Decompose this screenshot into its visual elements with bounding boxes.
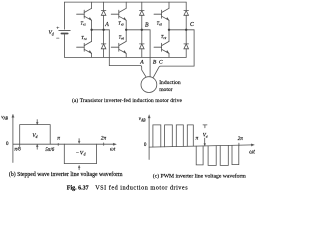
wire phase A to motor [109, 30, 146, 77]
svg-text:B: B [153, 60, 157, 66]
PWM negative pulse 2 [208, 146, 216, 166]
tick pi (b) [57, 143, 59, 145]
svg-text:Tr1: Tr1 [81, 21, 87, 27]
dim Vd top bar (c) [203, 124, 207, 126]
diode D4 bottom [101, 30, 106, 58]
svg-text:Induction: Induction [159, 80, 181, 86]
battery Vd plates [59, 29, 70, 31]
dim arrow above positive pulse [36, 120, 38, 124]
svg-text:Tr3: Tr3 [118, 20, 124, 26]
PWM positive pulse 4 [187, 125, 193, 146]
svg-text:Tr6: Tr6 [119, 34, 125, 40]
transistor Tr6 [111, 30, 126, 58]
svg-text:π: π [196, 136, 199, 142]
svg-text:(a) Transistor inverter-fed in: (a) Transistor inverter-fed induction mo… [72, 97, 182, 104]
wire phase B to motor [149, 30, 151, 77]
axis y (c) [148, 117, 150, 160]
svg-text:Vd: Vd [203, 134, 208, 139]
transistor Tr2 [154, 30, 169, 58]
svg-text:π: π [57, 136, 60, 142]
svg-text:(b) Stepped wave inverter line: (b) Stepped wave inverter line voltage w… [9, 171, 123, 178]
node B junction dot [125, 29, 127, 31]
svg-text:Vd: Vd [32, 133, 37, 139]
transistor Tr3 [111, 2, 126, 30]
svg-text:C: C [159, 60, 163, 66]
PWM positive pulse 3 [176, 125, 183, 147]
svg-text:(c) PWM inverter line voltage: (c) PWM inverter line voltage waveform [153, 173, 247, 180]
wire top rail [65, 1, 187, 3]
svg-text:Tr4: Tr4 [81, 35, 87, 41]
svg-text:ωt: ωt [110, 146, 116, 152]
pulse positive (b) [20, 125, 51, 147]
tick 2pi (b) [103, 143, 105, 146]
tick 2pi (c) [238, 143, 240, 146]
wire node A horizontal [92, 29, 110, 31]
svg-text:+: + [56, 25, 59, 31]
svg-text:ωt: ωt [249, 149, 255, 155]
wire left rail lower [64, 35, 66, 58]
svg-text:Fig. 6.37: Fig. 6.37 [67, 185, 89, 191]
PWM positive pulse 1 [153, 125, 161, 147]
svg-text:A: A [139, 59, 144, 65]
svg-text:C: C [190, 22, 194, 28]
transistor Tr4 [77, 30, 92, 58]
node C junction dot [168, 29, 170, 31]
dim arrow below axis positive [36, 145, 38, 149]
wire phase C to motor [153, 30, 194, 77]
axis x (b) [13, 143, 115, 145]
diode D2 bottom [184, 30, 189, 58]
wire node B horizontal [126, 29, 150, 31]
transistor Tr5 [154, 2, 169, 30]
svg-text:Tr5: Tr5 [157, 20, 163, 26]
svg-text:B: B [145, 22, 149, 28]
svg-text:2π: 2π [238, 136, 244, 142]
svg-text:0: 0 [144, 143, 147, 148]
svg-text:A: A [104, 22, 109, 28]
PWM negative pulse 4 [232, 145, 239, 164]
diode D1 top [101, 2, 106, 30]
dim arrow above axis negative [78, 139, 80, 143]
dim arrow below negative pulse [78, 166, 80, 170]
diode D3 top [140, 2, 145, 30]
axis x (c) [149, 145, 253, 147]
induction motor circle [141, 77, 157, 93]
axis y (b) [12, 116, 14, 163]
wire left rail upper [64, 2, 66, 29]
svg-text:−: − [56, 36, 60, 42]
svg-text:−Vd: −Vd [76, 151, 86, 157]
diode D5 top [184, 2, 189, 30]
dim Vd arrow to axis (c) [204, 138, 206, 145]
svg-text:motor: motor [159, 87, 172, 93]
PWM negative pulse 3 [220, 146, 228, 166]
wire node C horizontal [169, 29, 194, 31]
diode D6 bottom [140, 30, 145, 58]
transistor Tr1 [77, 2, 92, 30]
svg-text:5π/6: 5π/6 [45, 148, 54, 153]
svg-text:π/6: π/6 [14, 148, 21, 153]
svg-text:Vd: Vd [49, 30, 54, 36]
node A junction dot [90, 29, 92, 31]
svg-text:VSI fed induction motor drives: VSI fed induction motor drives [95, 184, 188, 191]
PWM positive pulse 2 [165, 125, 173, 147]
wire bottom rail [65, 56, 187, 58]
svg-text:vAB: vAB [139, 116, 147, 122]
svg-text:2π: 2π [101, 136, 107, 142]
svg-text:Tr2: Tr2 [161, 34, 167, 40]
svg-text:vAB: vAB [1, 114, 9, 120]
svg-text:0: 0 [6, 142, 9, 147]
pulse negative (b) [64, 144, 96, 163]
PWM negative pulse 1 [196, 146, 203, 165]
